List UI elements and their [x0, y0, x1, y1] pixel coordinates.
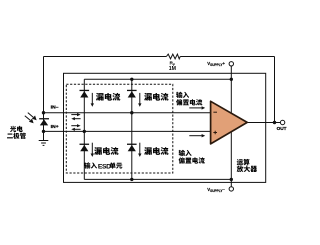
leakage current arrow 2 — [138, 93, 141, 107]
leakage current arrow 1 — [91, 93, 94, 107]
svg-text:IN–: IN– — [51, 104, 59, 110]
photodiode — [39, 118, 49, 125]
junction V- entry — [230, 178, 233, 181]
svg-text:ESD: ESD — [98, 163, 111, 170]
input current arrow a4 (left) — [71, 128, 80, 131]
diode D1 (col1 to V+) — [80, 90, 90, 98]
label leakage current 1 — [96, 93, 104, 101]
label op amp — [237, 159, 243, 165]
input current arrow a3 (right) — [71, 124, 80, 127]
amplifier boundary box — [64, 73, 266, 182]
leakage current arrow 3 — [91, 143, 94, 157]
label leakage current 2 — [144, 93, 152, 101]
label photodiode — [10, 126, 16, 132]
input bias current arrow (IN+) — [189, 134, 205, 137]
ground — [39, 141, 49, 146]
wire feedback top right segment — [180, 56, 274, 58]
junction col2/V- rail — [130, 178, 133, 181]
junction col2/IN- — [130, 111, 133, 114]
wire feedback left vertical — [43, 57, 45, 113]
wire output line — [247, 122, 281, 124]
junction col1/IN+ — [83, 130, 86, 133]
svg-text:IN+: IN+ — [51, 124, 59, 130]
wire photodiode branch — [43, 113, 45, 141]
wire supply vertical — [230, 66, 232, 187]
terminal Vsupply- — [229, 187, 233, 191]
diode D2 (col2 to V+) — [127, 90, 137, 98]
svg-text:OUT: OUT — [277, 126, 287, 131]
op-amp U1 — [211, 101, 248, 144]
junction col2/V+ rail — [130, 78, 133, 81]
terminal Vsupply+ — [229, 62, 233, 66]
wire V- rail — [84, 178, 231, 180]
wire ESD column 1 — [83, 79, 85, 179]
label leakage current 4 — [144, 147, 152, 155]
light arrow 1 — [28, 113, 37, 121]
label input bias current (top) — [176, 92, 182, 98]
node IN+ — [42, 130, 45, 133]
ESD cell dashed box — [66, 84, 173, 173]
wire V+ rail — [84, 78, 231, 80]
input current arrow a2 (left) — [71, 117, 80, 120]
label input ESD cell — [84, 162, 90, 168]
leakage current arrow 4 — [138, 143, 141, 157]
input bias current arrow (IN-) — [189, 106, 205, 109]
node IN- — [42, 111, 45, 114]
wire feedback top left segment — [44, 56, 167, 58]
wire ESD column 2 — [131, 79, 133, 179]
wire IN+ line — [44, 130, 211, 132]
wire feedback right vertical — [274, 57, 276, 123]
resistor RF 1M — [166, 54, 180, 59]
input current arrow a1 (right) — [71, 113, 80, 116]
svg-text:1M: 1M — [169, 66, 176, 72]
label input bias current (bottom) — [179, 150, 185, 156]
junction V+ entry — [230, 78, 233, 81]
label leakage current 3 — [94, 147, 102, 155]
diode D3 (col1 to V-) — [80, 144, 90, 152]
light arrow 2 — [25, 116, 34, 124]
wire IN- line — [44, 112, 211, 114]
diode D4 (col2 to V-) — [127, 144, 137, 152]
terminal OUT — [280, 120, 284, 124]
junction output/feedback — [273, 121, 276, 124]
